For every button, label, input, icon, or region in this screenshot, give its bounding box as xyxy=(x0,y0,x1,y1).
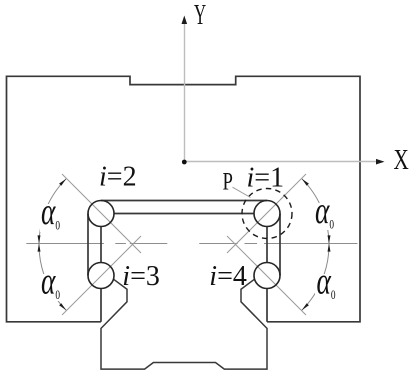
svg-text:Y: Y xyxy=(194,0,206,30)
right tangent line xyxy=(279,214,281,276)
ball circle i=1 xyxy=(254,201,280,227)
X axis xyxy=(185,161,379,163)
leader line P xyxy=(233,187,251,197)
svg-text:i=3: i=3 xyxy=(122,261,160,292)
diagonal contact line i=3 xyxy=(62,236,141,315)
right dimension arc lower xyxy=(302,245,329,311)
svg-text:i=2: i=2 xyxy=(99,161,137,192)
origin dot xyxy=(182,160,187,165)
left dimension arc upper xyxy=(39,179,66,245)
carriage outer profile xyxy=(7,76,361,321)
label P xyxy=(223,167,233,195)
X axis arrowhead xyxy=(376,159,385,165)
left rail flank upper segment xyxy=(100,227,102,263)
arc arrowheads right xyxy=(302,179,331,311)
right rail flank lower segment xyxy=(266,289,268,322)
label alpha0 left top xyxy=(40,204,60,232)
right rail flank upper segment xyxy=(266,227,268,263)
label alpha0 right top xyxy=(314,203,338,230)
diagonal contact line i=4 xyxy=(227,236,306,315)
ball circle i=4 xyxy=(254,263,280,289)
Y axis arrowhead xyxy=(182,16,188,25)
label alpha0 left bottom xyxy=(40,274,61,301)
svg-text:X: X xyxy=(394,144,409,176)
label Y xyxy=(194,0,206,30)
ball circle i=2 xyxy=(88,201,114,227)
arc arrowheads left xyxy=(38,179,67,311)
left tangent line xyxy=(87,214,89,276)
diagonal contact line i=2 xyxy=(62,174,141,253)
right dimension arc upper xyxy=(302,179,329,245)
left dimension arc lower xyxy=(39,245,66,311)
horizontal centerline xyxy=(26,243,357,245)
label X xyxy=(394,144,409,176)
dashed circle P around i=1 xyxy=(242,189,292,239)
svg-text:i=4: i=4 xyxy=(209,261,247,292)
svg-text:i=1: i=1 xyxy=(247,162,285,193)
rail head top line xyxy=(114,213,254,215)
ball circle i=3 xyxy=(88,263,114,289)
svg-text:P: P xyxy=(223,167,233,195)
diagonal contact line i=1 xyxy=(227,174,306,253)
rail profile xyxy=(101,279,267,369)
Y axis xyxy=(184,23,186,162)
raceway top tangent line xyxy=(101,200,267,202)
label alpha0 right bottom xyxy=(315,274,338,301)
left rail flank lower segment xyxy=(100,289,102,322)
